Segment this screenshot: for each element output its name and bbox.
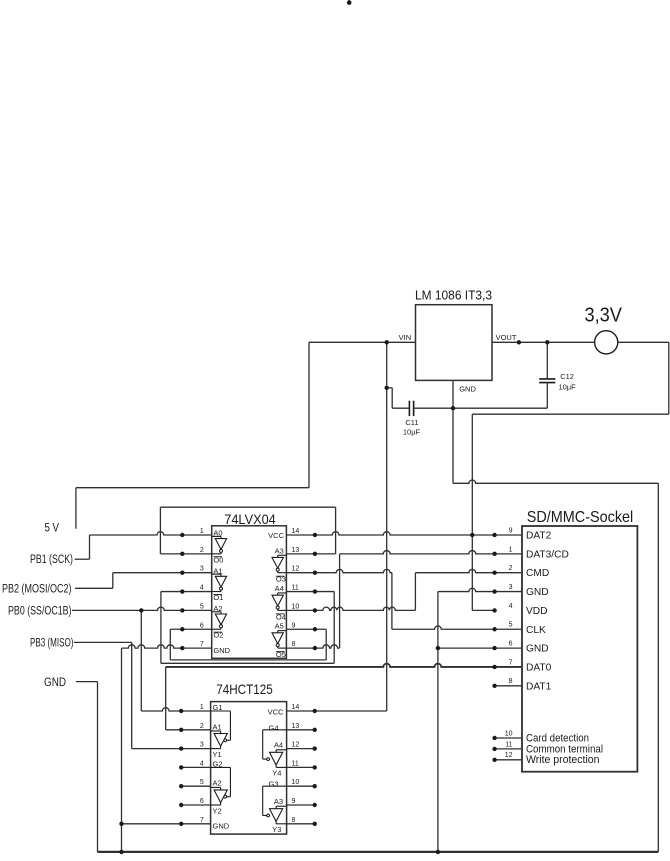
svg-text:7: 7 [200, 817, 204, 824]
svg-text:2: 2 [509, 565, 513, 572]
svg-text:A1: A1 [213, 722, 222, 731]
svg-text:11: 11 [292, 760, 299, 767]
svg-text:14: 14 [292, 528, 300, 535]
svg-text:G2: G2 [213, 760, 223, 769]
svg-text:9: 9 [292, 798, 296, 805]
svg-text:Y4: Y4 [272, 768, 281, 777]
svg-text:A2: A2 [213, 779, 222, 788]
svg-text:VOUT: VOUT [496, 333, 517, 342]
svg-text:GND: GND [213, 646, 230, 655]
svg-text:C12: C12 [560, 372, 574, 381]
svg-text:G1: G1 [213, 703, 223, 712]
svg-text:G3: G3 [268, 780, 278, 789]
svg-text:GND: GND [526, 587, 549, 598]
svg-text:74LVX04: 74LVX04 [224, 511, 276, 527]
svg-text:PB3 (MISO): PB3 (MISO) [30, 637, 74, 649]
svg-text:4: 4 [200, 585, 204, 592]
svg-text:2: 2 [200, 547, 204, 554]
svg-text:12: 12 [292, 566, 300, 573]
svg-text:6: 6 [509, 641, 513, 648]
svg-text:3,3V: 3,3V [584, 305, 622, 327]
svg-text:5: 5 [509, 622, 513, 629]
svg-text:CMD: CMD [526, 568, 549, 579]
svg-text:8: 8 [509, 678, 513, 685]
svg-text:DAT1: DAT1 [526, 681, 552, 692]
svg-text:10µF: 10µF [559, 383, 577, 392]
svg-text:A1: A1 [213, 566, 222, 575]
svg-text:GND: GND [459, 385, 476, 394]
svg-text:A4: A4 [274, 741, 283, 750]
svg-text:A2: A2 [213, 604, 222, 613]
svg-text:1: 1 [200, 528, 204, 535]
svg-text:Y1: Y1 [213, 750, 222, 759]
svg-text:7: 7 [200, 641, 204, 648]
svg-text:8: 8 [292, 641, 296, 648]
svg-text:DAT0: DAT0 [526, 662, 552, 673]
svg-text:A5: A5 [275, 622, 284, 631]
svg-text:GND: GND [213, 821, 230, 830]
svg-text:VCC: VCC [268, 531, 284, 540]
svg-text:13: 13 [292, 723, 300, 730]
svg-text:4: 4 [200, 760, 204, 767]
svg-text:LM 1086 IT3,3: LM 1086 IT3,3 [415, 288, 492, 302]
svg-text:PB0 (SS/OC1B): PB0 (SS/OC1B) [8, 606, 72, 618]
svg-text:GND: GND [44, 677, 66, 689]
svg-text:10: 10 [292, 603, 300, 610]
svg-text:1: 1 [200, 704, 204, 711]
svg-text:G4: G4 [268, 723, 278, 732]
svg-text:12: 12 [505, 752, 513, 759]
svg-text:A4: A4 [275, 584, 284, 593]
svg-text:5: 5 [200, 603, 204, 610]
svg-text:3: 3 [200, 742, 204, 749]
svg-text:4: 4 [509, 603, 513, 610]
svg-text:DAT3/CD: DAT3/CD [526, 549, 569, 560]
svg-text:11: 11 [292, 585, 299, 592]
svg-text:9: 9 [292, 622, 296, 629]
svg-text:VIN: VIN [399, 333, 412, 342]
svg-text:8: 8 [292, 817, 296, 824]
svg-text:74HCT125: 74HCT125 [216, 681, 273, 697]
svg-text:Y3: Y3 [272, 825, 281, 834]
svg-text:7: 7 [509, 659, 513, 666]
svg-text:6: 6 [200, 798, 204, 805]
svg-text:10: 10 [505, 730, 513, 737]
svg-text:9: 9 [509, 527, 513, 534]
svg-text:11: 11 [505, 741, 512, 748]
svg-text:3: 3 [509, 584, 513, 591]
svg-text:A3: A3 [274, 797, 283, 806]
svg-text:C11: C11 [405, 418, 418, 427]
svg-text:Y2: Y2 [213, 807, 222, 816]
svg-text:GND: GND [526, 644, 549, 655]
svg-text:CLK: CLK [526, 625, 546, 636]
svg-text:PB2 (MOSI/OC2): PB2 (MOSI/OC2) [2, 583, 72, 595]
svg-text:A0: A0 [213, 529, 222, 538]
svg-text:14: 14 [292, 704, 300, 711]
svg-text:3: 3 [200, 566, 204, 573]
svg-text:Write protection: Write protection [526, 754, 600, 766]
svg-text:2: 2 [200, 723, 204, 730]
svg-text:A3: A3 [275, 546, 284, 555]
svg-text:10µF: 10µF [403, 428, 421, 437]
svg-text:13: 13 [292, 547, 300, 554]
svg-text:5 V: 5 V [45, 522, 60, 534]
svg-text:1: 1 [509, 546, 513, 553]
svg-text:DAT2: DAT2 [526, 531, 552, 542]
svg-text:5: 5 [200, 779, 204, 786]
svg-text:VDD: VDD [526, 606, 548, 617]
svg-text:12: 12 [292, 742, 300, 749]
svg-text:VCC: VCC [268, 708, 284, 717]
svg-text:SD/MMC-Sockel: SD/MMC-Sockel [527, 509, 634, 526]
svg-text:6: 6 [200, 622, 204, 629]
svg-text:10: 10 [292, 779, 300, 786]
svg-text:PB1 (SCK): PB1 (SCK) [30, 554, 73, 566]
